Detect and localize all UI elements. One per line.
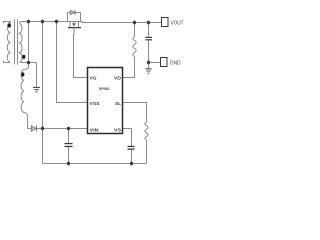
transformer T1 primary bottom stub bbox=[4, 61, 11, 63]
IC U1 controller body bbox=[88, 68, 123, 134]
transistor Q1 gate arrow bbox=[72, 23, 76, 27]
resistor R1 bbox=[145, 122, 148, 140]
diode D1 aux rectifier bbox=[31, 126, 36, 132]
phase dot aux bbox=[21, 72, 24, 76]
inductor L1 bottom lead to VD bbox=[123, 57, 135, 78]
svg-text:GND: GND bbox=[170, 61, 181, 67]
wire VIN node down to bottom rail bbox=[42, 129, 44, 164]
wire diode row to VIN bbox=[28, 128, 88, 130]
wire secondary bottom bbox=[20, 62, 37, 64]
transistor Q1 gate lead to VG bbox=[74, 28, 88, 77]
wire GND node to GND terminal bbox=[149, 62, 161, 64]
transformer T1 primary winding bbox=[7, 22, 10, 63]
svg-text:VS: VS bbox=[114, 128, 122, 134]
node dot rail L1 bbox=[133, 21, 136, 25]
terminal GND box bbox=[161, 58, 168, 67]
inductor L1 coil bbox=[133, 37, 136, 57]
transistor Q1 drain/source legs bbox=[70, 22, 79, 28]
resistor R1 bottom lead bbox=[146, 140, 148, 164]
capacitor C2 leads bbox=[148, 23, 150, 69]
capacitor C1 plates bbox=[65, 143, 73, 147]
svg-text:SL: SL bbox=[115, 101, 121, 107]
capacitor C2 plates bbox=[146, 37, 153, 41]
node dot rail B bbox=[41, 20, 44, 24]
node dot C1 top bbox=[67, 127, 70, 131]
node dot rail C2 bbox=[147, 21, 150, 25]
capacitor C3 bottom lead bbox=[131, 150, 133, 164]
transformer T1 aux winding top lead bbox=[24, 66, 29, 70]
phase dot secondary bbox=[22, 55, 25, 59]
svg-text:VG: VG bbox=[90, 76, 97, 82]
svg-text:VIN: VIN bbox=[90, 128, 100, 134]
phase dot primary bbox=[8, 23, 11, 27]
wire ground stub from secondary bottom bbox=[36, 63, 38, 88]
wire vertical rail to aux winding bbox=[28, 22, 30, 67]
wire VS to capacitor C3 bbox=[123, 129, 132, 146]
capacitor C3 plates bbox=[128, 146, 135, 150]
ground G2 bbox=[145, 69, 151, 73]
node dot secondary bottom bbox=[27, 61, 30, 65]
wire rail to VSS bbox=[57, 22, 88, 103]
node dot GND bbox=[147, 61, 150, 65]
transformer T1 secondary winding bbox=[20, 24, 22, 63]
node dot rail A bbox=[27, 20, 30, 24]
wire bottom rail bbox=[43, 163, 147, 165]
capacitor C1 leads bbox=[68, 129, 70, 164]
svg-text:BP9861: BP9861 bbox=[99, 87, 110, 91]
transformer T1 primary top stub bbox=[4, 22, 11, 24]
svg-text:VD: VD bbox=[114, 76, 121, 82]
transformer T1 core bbox=[15, 20, 18, 65]
transistor Q1 bypass diode bbox=[70, 10, 75, 15]
transistor Q1 bypass diode loop bbox=[68, 13, 81, 22]
svg-text:VSS: VSS bbox=[90, 101, 101, 107]
wire secondary top to rail bbox=[20, 22, 25, 24]
transistor Q1 channel bar bbox=[68, 27, 81, 28]
node dot C1 bottom bbox=[67, 162, 70, 166]
node dot rail C bbox=[55, 20, 58, 24]
wire SL to resistor bbox=[123, 103, 147, 123]
wire top rail bbox=[24, 22, 162, 23]
svg-text:VOUT: VOUT bbox=[171, 21, 184, 27]
terminal VOUT box bbox=[162, 18, 169, 27]
transformer T1 aux winding bottom lead bbox=[24, 113, 28, 129]
inductor L1 top lead bbox=[134, 23, 136, 37]
node dot VIN bbox=[41, 127, 44, 131]
transformer T1 aux winding bbox=[21, 70, 24, 113]
wire vertical rail to VIN node bbox=[42, 22, 44, 129]
node dot C3 bottom bbox=[130, 162, 133, 166]
ground G1 bbox=[33, 87, 40, 91]
